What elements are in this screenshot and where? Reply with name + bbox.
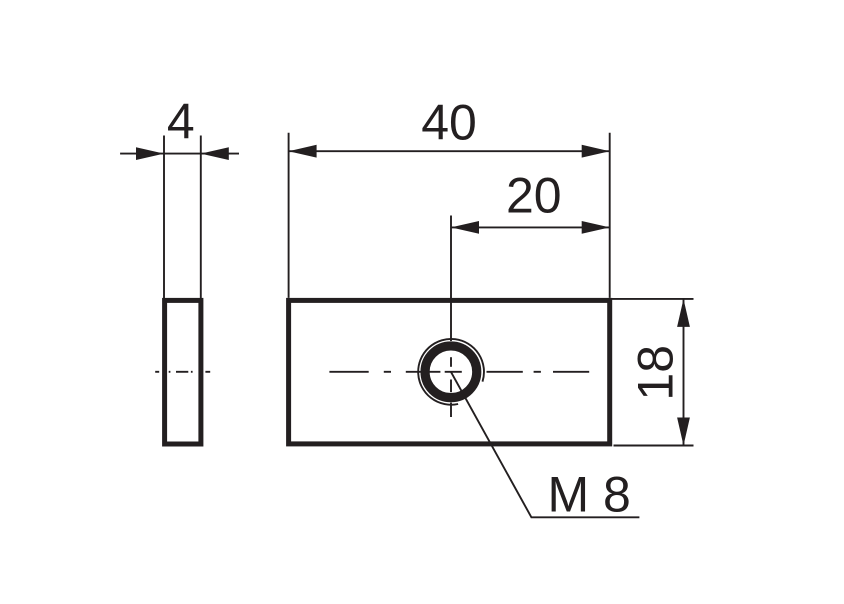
dimension 40: dimension line bbox=[289, 150, 610, 152]
dimension 4: extension line right bbox=[200, 136, 202, 299]
svg-text:20: 20 bbox=[506, 167, 562, 223]
dimension 4: right arrowhead bbox=[201, 147, 229, 160]
dimension 40: extension line right bbox=[609, 133, 611, 298]
side view horizontal centerline bbox=[155, 371, 210, 373]
dimension 18: extension line top bbox=[612, 298, 694, 300]
dimension 4: left tail line bbox=[120, 153, 164, 155]
side view outline (4 mm thick plate) bbox=[165, 300, 201, 444]
dimension 4: left arrowhead bbox=[136, 147, 164, 160]
dimension 18: top arrowhead bbox=[677, 299, 690, 327]
dimension 4: dimension line between extension lines bbox=[164, 153, 201, 155]
dimension 20: dimension line bbox=[451, 226, 610, 228]
svg-text:M 8: M 8 bbox=[548, 467, 631, 523]
tapped hole M8: thread major diameter arc (thin, 3/4 circle) bbox=[418, 339, 484, 405]
front view horizontal centerline bbox=[329, 371, 589, 373]
dimension 4: extension line left bbox=[163, 136, 165, 299]
svg-text:4: 4 bbox=[167, 94, 195, 150]
dimension 18: bottom arrowhead bbox=[677, 418, 690, 446]
leader line for M8 bbox=[451, 372, 640, 518]
dimension 40: right arrowhead bbox=[582, 145, 610, 158]
dimension 18: dimension line bbox=[683, 299, 685, 446]
dimension 20: left arrowhead bbox=[451, 221, 479, 234]
dimension 4: right tail line bbox=[201, 153, 239, 155]
dimension 40: extension line left bbox=[288, 133, 290, 298]
dimension 40: left arrowhead bbox=[289, 145, 317, 158]
svg-text:40: 40 bbox=[421, 95, 477, 151]
dimension 18: extension line bottom bbox=[614, 445, 694, 447]
dimension 20: right arrowhead bbox=[582, 221, 610, 234]
tapped hole M8: minor diameter circle (thick) bbox=[425, 346, 477, 398]
hole vertical centerline bbox=[450, 216, 452, 418]
front view outline (40 x 18 plate) bbox=[289, 300, 610, 444]
svg-text:18: 18 bbox=[628, 345, 684, 401]
